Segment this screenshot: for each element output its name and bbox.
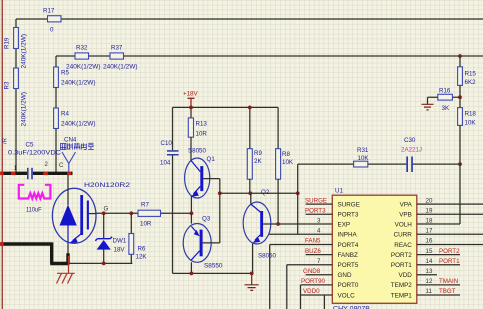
svg-text:13: 13 [426,268,433,275]
svg-text:C10: C10 [161,140,173,147]
svg-text:R5: R5 [61,70,69,77]
junction dot VOLH-R18 [458,162,462,166]
svg-text:U1: U1 [335,188,343,195]
junction dot 18V [189,106,193,110]
junction dot base bus [218,191,222,195]
wire R5 to R4 [55,88,57,109]
svg-text:Q2: Q2 [261,189,270,196]
svg-text:DW1: DW1 [113,238,127,245]
resistor R4 [54,108,96,129]
svg-text:TEMP2: TEMP2 [391,282,412,289]
svg-text:PORT1: PORT1 [439,258,460,265]
svg-text:3: 3 [317,218,321,225]
svg-text:6K2: 6K2 [465,79,477,86]
svg-text:19: 19 [426,207,433,214]
ground symbol GND [245,273,259,290]
svg-text:16: 16 [426,238,433,245]
svg-text:VPA: VPA [400,201,413,208]
svg-text:REAC: REAC [394,242,412,249]
wire Q3 emitter down [190,262,192,273]
svg-text:VOLH: VOLH [395,222,413,229]
svg-text:R15: R15 [465,71,477,78]
junction dot drive node [190,211,194,215]
thick wire bottom left [0,242,70,263]
svg-text:VDD: VDD [399,272,413,279]
svg-text:VOLC: VOLC [338,292,356,299]
pin 12 TMAIN wire [417,284,460,286]
svg-text:H20N120R2: H20N120R2 [84,182,131,189]
junction dot gnd node [250,272,254,276]
svg-text:PORT0: PORT0 [338,282,359,289]
resistor R8 [276,149,294,180]
svg-text:R16: R16 [439,88,451,95]
resistor R17 [43,8,61,34]
pin 11 TBGT wire [417,294,460,296]
svg-text:R37: R37 [111,45,123,52]
resistor R19 [3,28,27,69]
svg-text:3K: 3K [442,105,450,112]
wire VOLH net horizontal [298,163,460,165]
svg-text:PORT90: PORT90 [301,278,326,285]
svg-text:/R: /R [3,137,9,144]
resistor R16 [428,88,461,113]
svg-text:R9: R9 [254,150,262,157]
capacitor C5 [8,142,62,180]
svg-text:+18V: +18V [183,91,198,98]
wire C10 down to gnd rail [173,156,252,274]
chip U1 left pin names [338,201,360,299]
svg-text:CN4: CN4 [64,137,77,144]
svg-text:10K: 10K [282,159,294,166]
junction dot R15 rail2 [458,54,462,58]
svg-text:10R: 10R [140,221,152,228]
svg-text:S8550: S8550 [204,263,223,270]
wire R13 to Q1 [190,137,192,161]
junction dot gate-DW1 [102,211,106,215]
svg-text:VDD0: VDD0 [303,288,320,295]
pin 20 VPA wire [417,203,483,205]
svg-text:240K(1/2W): 240K(1/2W) [61,80,96,87]
junction dot INPHA branch [296,191,300,195]
svg-text:11: 11 [426,288,433,295]
svg-text:PORT2: PORT2 [439,248,460,255]
svg-text:4: 4 [317,228,321,235]
IGBT Q H20N120R2 [52,175,130,244]
svg-text:18: 18 [426,218,433,225]
svg-text:TMAIN: TMAIN [439,278,458,285]
pin 1 SURGE stub [306,203,333,205]
pin 10 VDD wire [301,295,333,309]
transistor Q3 S8550 [183,216,223,270]
svg-text:18V: 18V [114,247,126,254]
resistor R18 [458,108,477,127]
transistor Q2 S8050 [243,189,276,260]
pin 16 REAC wire [417,244,483,246]
connector CN4 [59,137,94,172]
wire Q1 emitter down [190,196,192,214]
chip U1 body [332,188,417,309]
resistor R7 [138,202,161,228]
transistor Q1 S8050 [185,148,220,199]
svg-text:EXP: EXP [338,222,351,229]
svg-text:240K(1/2W): 240K(1/2W) [103,64,138,71]
wire base bus vertical [219,179,221,243]
svg-text:PORT5: PORT5 [338,262,359,269]
svg-text:110uF: 110uF [26,207,42,214]
resistor R37 [103,45,138,71]
junction dot pin3 node [276,222,280,226]
wire rail 2 [56,56,483,67]
resistor R6 [129,213,147,263]
svg-text:240K(1/2W): 240K(1/2W) [21,92,28,127]
svg-text:R6: R6 [138,246,146,253]
power +18V [183,91,198,108]
pin 5 FAN wire [270,245,333,309]
zener diode DW1 [95,213,127,263]
wire top rail 1 [16,19,483,172]
svg-text:2K: 2K [254,158,262,165]
pin 9 PORT0 wire [301,285,333,309]
svg-text:C5: C5 [26,142,34,149]
earth ground (red) [57,256,75,284]
svg-text:240K(1/2W): 240K(1/2W) [21,34,28,69]
wire Q2 collector up [250,193,252,203]
svg-text:PORT4: PORT4 [338,242,359,249]
resistor R31 [354,147,370,167]
wire Q2 emitter down [252,244,254,274]
wire Q2 base to pin3 [263,223,332,225]
resistor R3 [3,68,27,127]
svg-text:0: 0 [50,27,54,34]
svg-text:17: 17 [426,228,433,235]
svg-text:240K(1/2W): 240K(1/2W) [61,121,96,128]
svg-text:12K: 12K [136,254,148,261]
resistor R5 [54,67,96,88]
pin 7 wire [287,265,333,309]
pin 13 stub [417,274,437,276]
svg-text:240K(1/2W): 240K(1/2W) [66,64,101,71]
svg-text:15: 15 [426,248,433,255]
capacitor C10 [160,140,179,167]
pin 14 PORT1 wire [417,264,460,266]
resistor R13 [188,118,207,138]
svg-text:PORT3: PORT3 [305,207,326,214]
svg-text:R32: R32 [76,45,88,52]
svg-text:PORT2: PORT2 [391,252,412,259]
svg-text:0.3uF/1200VDC: 0.3uF/1200VDC [8,151,62,157]
wire R4 down to node [55,129,57,173]
pin 15 PORT2 wire [417,254,460,256]
resistor R9 [247,149,262,180]
svg-text:20: 20 [426,197,433,204]
svg-text:R13: R13 [196,121,208,128]
svg-text:C30: C30 [404,137,416,144]
svg-text:14: 14 [426,258,433,265]
ground symbol top right [422,104,434,110]
svg-text:104: 104 [160,160,171,167]
svg-text:R3: R3 [3,81,10,89]
wire emitter rail to R6 [68,262,132,264]
svg-text:R19: R19 [3,37,10,49]
svg-text:R8: R8 [282,151,290,158]
wire base node horizontal [220,192,298,194]
svg-text:R7: R7 [141,202,149,209]
svg-text:SURGE: SURGE [305,197,327,204]
svg-text:R31: R31 [357,147,369,154]
svg-text:GND8: GND8 [303,268,321,275]
svg-text:BUZ6: BUZ6 [305,248,321,255]
junction dot DW1 bottom [102,262,106,266]
wire +18V rail3 [173,107,279,150]
junction dot gate-R6 [129,211,133,215]
gate wire G node [96,212,191,214]
svg-text:C: C [59,163,64,169]
svg-text:G: G [104,206,109,213]
svg-text:GND: GND [338,272,352,279]
pin 2 PORT3 stub [306,213,333,215]
svg-text:10K: 10K [358,155,370,162]
induction coil L 110uF [19,185,51,214]
thick wire node top (mains) [0,172,73,175]
svg-text:S8050: S8050 [258,253,276,260]
junction dot Q3 gnd rail [190,272,194,276]
wire drive node to Q3 [190,213,192,223]
pin 19 VPB wire [417,213,483,215]
junction dot R9 bottom [248,191,252,195]
wire INPHA vertical branch [269,164,333,234]
pin 17 CURR wire [417,233,483,235]
svg-text:Q3: Q3 [202,216,211,223]
svg-text:R17: R17 [43,8,55,15]
svg-text:R4: R4 [61,111,69,118]
pin 8 GND stub [306,274,333,276]
svg-text:S8050: S8050 [188,148,206,155]
sheet border left [2,0,3,309]
svg-text:FANBZ: FANBZ [338,252,358,259]
svg-text:10K: 10K [465,120,477,127]
svg-text:INPHA: INPHA [338,232,358,239]
svg-text:PORT1: PORT1 [391,262,412,269]
svg-text:TEMP1: TEMP1 [391,292,412,299]
resistor R32 [66,45,101,71]
svg-text:TBGT: TBGT [439,288,456,295]
red pin end marks on thick wire [11,172,16,175]
svg-text:CURR: CURR [394,232,413,239]
svg-text:Q1: Q1 [207,156,216,163]
resistor R15 [458,56,477,86]
wire R9 bottom [249,179,251,193]
svg-text:12: 12 [426,278,433,285]
svg-text:VPB: VPB [399,212,412,219]
svg-text:R18: R18 [465,111,477,118]
junction dot R16 node [458,95,462,99]
chip U1 right pin names [391,201,413,299]
svg-text:2A221J: 2A221J [401,147,422,154]
wire R8 bottom to pin3 [277,179,279,224]
svg-text:SURGE: SURGE [338,201,360,208]
svg-text:10R: 10R [196,131,208,138]
wire R18 down VOLH [417,125,460,224]
junction dot R9 top [248,106,252,110]
svg-text:FAN5: FAN5 [305,238,321,245]
wire IGBT emitter down [67,243,69,253]
wire R15 to R18 [459,85,461,107]
svg-text:PORT3: PORT3 [338,212,359,219]
pin 6 BUZ stub [306,254,333,256]
svg-text:7: 7 [317,258,321,265]
capacitor C30 [401,137,422,172]
svg-text:CHY 0907B: CHY 0907B [333,306,370,309]
